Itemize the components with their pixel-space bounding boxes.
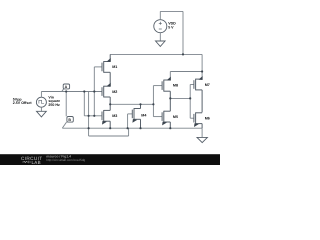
V2 minus sign [159, 28, 162, 30]
wire low row riser [128, 128, 130, 136]
svg-text:250 Hz: 250 Hz [48, 103, 60, 107]
node dot A-row flag [65, 90, 67, 92]
node dot mirror bus left [152, 103, 154, 105]
node dot M4 drain [139, 103, 141, 105]
wire M8/M5 gate bus vertical [152, 86, 154, 117]
footer bar [0, 154, 220, 165]
transistor M8 [162, 77, 171, 112]
transistor M1 [102, 54, 111, 86]
wire ground stem bottom right [201, 128, 203, 137]
wire M6 gate lead [190, 117, 194, 119]
wire M7 drain vertical [201, 54, 203, 78]
ground under VDD [156, 41, 166, 46]
wire M7 gate lead [190, 84, 194, 86]
wire node A row [41, 91, 102, 93]
node dot M7 gate row [189, 97, 191, 99]
wire VDD vertical drop to rail [182, 11, 184, 54]
node dot M7 column row71 [201, 70, 203, 72]
transistor M4 [132, 104, 140, 128]
transistor M2 [102, 83, 111, 105]
ground under Vin [37, 111, 47, 117]
wire flag A drop [65, 92, 67, 117]
wire VDD bottom stem [159, 33, 161, 41]
wire M5 gate lead [153, 116, 162, 118]
node flag B [62, 117, 73, 129]
wire M4 gate corner vertical [127, 114, 129, 128]
transistor M6 [194, 112, 202, 128]
transistor M3 [102, 104, 110, 128]
node flag A [62, 84, 70, 91]
ground bottom right [197, 137, 207, 142]
node dot M3 source on B row [109, 127, 111, 129]
svg-text:M1: M1 [112, 65, 117, 69]
node dot B row x88 [88, 127, 90, 129]
voltage source V1 Vin circle [36, 97, 46, 107]
svg-text:M7: M7 [205, 83, 210, 87]
node dot M5 source on rail [169, 127, 171, 129]
wire M8 drain vertical [169, 72, 171, 81]
svg-text:LAB: LAB [32, 160, 41, 165]
wire M8 gate lead [153, 85, 162, 87]
node dot M3 gate row [88, 115, 90, 117]
wire low row [89, 135, 129, 137]
svg-text:A: A [65, 85, 68, 89]
node dot A-row x84 [83, 90, 85, 92]
wire bottom ground rail node B [62, 127, 202, 129]
V1 square-wave glyph [39, 100, 44, 103]
label V1 right Vin square 250 Hz [48, 96, 60, 107]
node dot A-row bus [93, 90, 95, 92]
node dot M8 source row [169, 97, 171, 99]
node dot M4 gate on B row [127, 127, 129, 129]
voltage source V2 VDD circle [154, 20, 167, 33]
wire VDD top horizontal [160, 10, 183, 12]
wire Vin top stem [40, 92, 42, 98]
wire gate bus vertical M1-M2 [93, 67, 95, 116]
wire VDD top stem [159, 11, 161, 19]
wire vertical A-row to M3 gate row [83, 92, 85, 116]
wire M4 gate lead [128, 113, 133, 115]
label V1 left 5Vpp 2.5V Offset [13, 97, 33, 105]
svg-text:2.5V Offset: 2.5V Offset [13, 101, 33, 105]
wire vertical through node to low row [88, 92, 90, 137]
junction dots [65, 53, 203, 129]
wire Vin bottom stem [40, 107, 42, 111]
node dot M2 source [109, 103, 111, 105]
node dot M4 source on rail [139, 127, 141, 129]
svg-text:5 V: 5 V [168, 26, 174, 30]
footer logo squiggle [22, 161, 31, 164]
wire M2 source node row [110, 103, 153, 105]
label VDD value [168, 22, 176, 30]
wire M3 gate row [84, 115, 102, 117]
transistor M5 [162, 111, 170, 128]
V2 plus sign [159, 22, 162, 25]
node dot VDD on rail [182, 53, 184, 55]
svg-text:http://circuitlab.com/cxs25dg: http://circuitlab.com/cxs25dg [46, 158, 85, 162]
wire top rail [110, 53, 202, 55]
wire M8 source to M7/M6 gates row [170, 97, 190, 99]
svg-text:M6: M6 [205, 117, 210, 121]
svg-text:M8: M8 [173, 84, 178, 88]
svg-text:M4: M4 [141, 113, 147, 117]
svg-text:M5: M5 [173, 115, 178, 119]
transistor M7 [194, 76, 203, 112]
svg-text:B: B [68, 118, 71, 122]
svg-text:M3: M3 [112, 114, 117, 118]
wire M1 gate lead row [94, 66, 102, 68]
wire PMOS pair top row [170, 71, 202, 73]
wire M7/M6 gate bus vertical [189, 85, 191, 119]
svg-text:M2: M2 [112, 90, 117, 94]
node dot M3 gate row bus [93, 115, 95, 117]
